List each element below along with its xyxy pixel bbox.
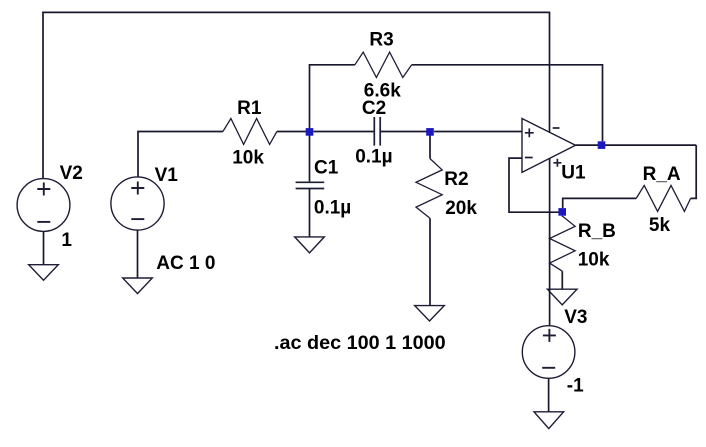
resistor R_B [550, 216, 576, 271]
ground V2 [29, 265, 59, 281]
resistor R3 [355, 52, 412, 77]
svg-text:R_A: R_A [643, 164, 681, 185]
wire V1 top to R1 [138, 132, 223, 177]
op-amp U1 [522, 119, 576, 173]
wire R2 to ground [429, 218, 431, 305]
junction output node [598, 141, 606, 149]
wire R3 to output node [412, 65, 603, 141]
svg-text:20k: 20k [445, 198, 477, 219]
wire R_B to ground [561, 271, 563, 289]
svg-text:V1: V1 [155, 165, 179, 186]
wire node A to C2 [314, 131, 374, 133]
svg-text:5k: 5k [649, 215, 671, 236]
svg-text:10k: 10k [232, 148, 264, 169]
wire C1 to ground [309, 189, 311, 237]
voltage source V1 [111, 177, 164, 230]
svg-text:C2: C2 [362, 98, 386, 119]
junction node A [306, 128, 314, 136]
ground V3 [534, 412, 564, 429]
svg-text:AC 1 0: AC 1 0 [156, 253, 215, 274]
svg-text:0.1µ: 0.1µ [355, 146, 392, 167]
resistor R_A [636, 185, 690, 211]
wire inverting input feedback [509, 158, 562, 212]
wire R_A to node C [563, 198, 637, 208]
svg-text:1: 1 [61, 230, 72, 251]
capacitor C1 [296, 182, 325, 188]
voltage source V3 [522, 326, 575, 379]
wire V1 to ground [137, 230, 139, 278]
svg-text:R1: R1 [237, 98, 262, 119]
wire C2 to node B [380, 131, 430, 133]
svg-text:10k: 10k [578, 250, 610, 271]
junction node C [558, 208, 566, 216]
wire node B to op-amp input [434, 131, 522, 133]
svg-text:R2: R2 [444, 169, 468, 190]
ground C1 [295, 237, 325, 253]
svg-text:V3: V3 [564, 307, 587, 328]
svg-text:V2: V2 [60, 163, 83, 184]
ground R_B [547, 289, 577, 305]
wire op-amp V+ rail top [549, 12, 551, 133]
wire V2 to ground [43, 231, 45, 264]
svg-text:.ac dec 100 1 1000: .ac dec 100 1 1000 [274, 332, 446, 354]
wire node B down to R2 [429, 135, 431, 159]
wire output loop right [691, 145, 697, 198]
wire top rail [42, 11, 549, 13]
voltage source V2 [17, 179, 70, 232]
svg-text:U1: U1 [561, 163, 586, 184]
resistor R2 [416, 159, 442, 219]
ground V1 [123, 278, 153, 294]
junction node B [426, 128, 434, 136]
wire V3 to ground [548, 378, 550, 412]
svg-text:R_B: R_B [578, 221, 616, 242]
capacitor C2 [374, 117, 380, 146]
wire node A to C1 [309, 135, 311, 181]
wire op-amp V- rail to V3 [549, 158, 551, 325]
resistor R1 [223, 119, 277, 145]
svg-text:C1: C1 [314, 157, 339, 178]
svg-text:R3: R3 [369, 30, 393, 51]
svg-text:-1: -1 [567, 376, 584, 397]
wire V2 top drop [42, 12, 44, 179]
wire node A up to R3 [310, 65, 355, 132]
ground R2 [415, 306, 445, 321]
svg-text:0.1µ: 0.1µ [314, 198, 351, 219]
wire op-amp output [576, 144, 697, 146]
wire R1 to node A [277, 131, 310, 133]
